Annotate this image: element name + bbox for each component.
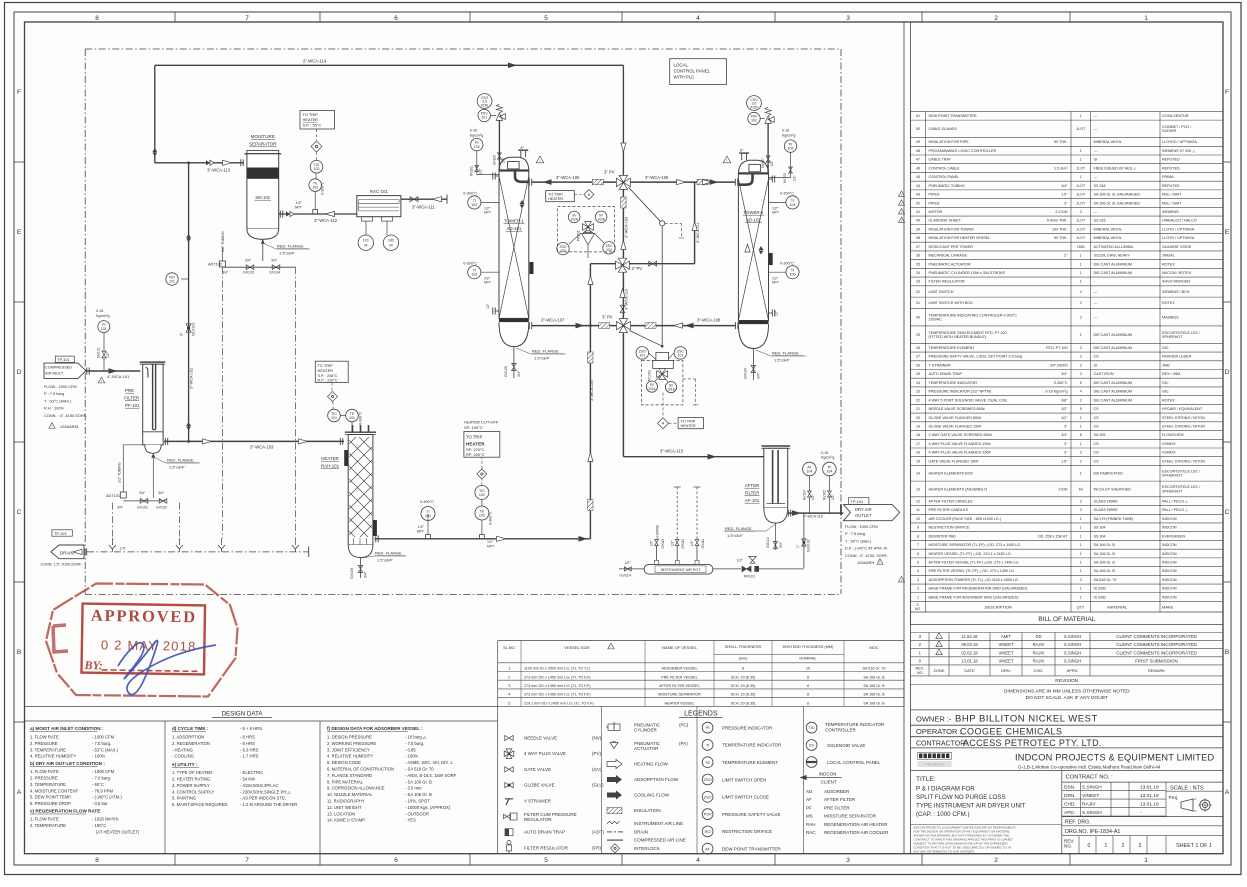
- svg-text:(PA): (PA): [679, 741, 688, 746]
- svg-text:GV104: GV104: [269, 271, 280, 275]
- svg-text:6. MATERIAL OF CONSTRUCTION: 6. MATERIAL OF CONSTRUCTION: [327, 767, 394, 772]
- svg-text:Proj.: Proj.: [1169, 795, 1179, 801]
- svg-text:6: 6: [917, 552, 919, 556]
- svg-text:02.02.18: 02.02.18: [961, 650, 978, 655]
- svg-text:AF-101: AF-101: [745, 498, 760, 503]
- svg-text:RAC-101: RAC-101: [370, 189, 389, 194]
- svg-text:HINDALCO / NALCO: HINDALCO / NALCO: [1162, 219, 1197, 223]
- svg-text:NV101: NV101: [97, 347, 101, 358]
- svg-text:4 WAY 5 PORT SOLENOID VALVE, D: 4 WAY 5 PORT SOLENOID VALVE, DUAL COIL: [929, 398, 1008, 402]
- svg-text:3: 3: [846, 15, 850, 22]
- svg-text:DIE CAST ALUMINIUM: DIE CAST ALUMINIUM: [1094, 262, 1132, 266]
- svg-text:MOC: MOC: [869, 645, 878, 650]
- svg-text:RTD, PT 100: RTD, PT 100: [1046, 346, 1067, 350]
- svg-text:INSULATION: INSULATION: [634, 808, 661, 813]
- svg-text:102: 102: [479, 513, 485, 517]
- svg-text:TOWER-1: TOWER-1: [504, 219, 525, 224]
- svg-text:1/2": 1/2": [650, 540, 654, 546]
- svg-text:3"-WCA-113: 3"-WCA-113: [207, 168, 231, 173]
- svg-text:COOLING FLOW: COOLING FLOW: [634, 793, 670, 798]
- svg-text:DRN.: DRN.: [1001, 668, 1011, 673]
- svg-text:GLASS FIBRE: GLASS FIBRE: [1094, 508, 1119, 512]
- svg-text:M: M: [389, 244, 392, 248]
- svg-text:INDCON: INDCON: [1162, 517, 1177, 521]
- svg-text:43: 43: [916, 193, 920, 197]
- svg-text:SHVO MORGEN: SHVO MORGEN: [1162, 280, 1190, 284]
- svg-text:NOMINAL: NOMINAL: [799, 657, 816, 661]
- legend col2 flows: [608, 724, 620, 731]
- svg-text:102: 102: [479, 493, 485, 497]
- svg-text:MATERIAL: MATERIAL: [1107, 604, 1127, 609]
- svg-text:I4: I4: [662, 422, 665, 426]
- PI101 gauge: [103, 358, 105, 371]
- svg-text:!: !: [901, 220, 902, 224]
- svg-text:AIR COOLER (FACE SIZE - 695 x: AIR COOLER (FACE SIZE - 695 x1000 LG.): [929, 517, 1002, 521]
- svg-text:50 THK.: 50 THK.: [1054, 140, 1067, 144]
- svg-text:SA 106 Gr. B: SA 106 Gr. B: [1094, 543, 1116, 547]
- vertical 3-WCA-110 PV2 to PV3: [622, 272, 624, 318]
- svg-text:2: 2: [994, 857, 998, 864]
- signal to trip heater from PC101: [683, 378, 696, 380]
- svg-text:2. HEATER RATING: 2. HEATER RATING: [172, 777, 210, 782]
- svg-text:NV102: NV102: [470, 166, 474, 176]
- svg-text:NV103: NV103: [783, 173, 787, 183]
- tower-1 TI102: [481, 201, 499, 203]
- svg-text:INSTRUMENT AIR LINE: INSTRUMENT AIR LINE: [634, 821, 683, 826]
- svg-text:25: 25: [916, 372, 920, 376]
- svg-text:HEATER: HEATER: [318, 368, 334, 373]
- tower-2 TI105: [769, 271, 787, 273]
- svg-text:SHELL THICKNESS: SHELL THICKNESS: [725, 644, 762, 649]
- svg-text:!: !: [52, 425, 53, 429]
- svg-text:4: 4: [1080, 390, 1082, 394]
- svg-text:TO TRIP: TO TRIP: [466, 435, 483, 440]
- svg-text:13.01.18: 13.01.18: [1140, 802, 1159, 808]
- svg-text:104: 104: [826, 469, 832, 473]
- svg-text:AUTO DRAIN TRAP: AUTO DRAIN TRAP: [929, 372, 963, 376]
- svg-text:- HEATING: - HEATING: [172, 747, 193, 752]
- title block owner row: [911, 709, 1224, 711]
- svg-text:CHD.: CHD.: [1064, 802, 1076, 808]
- svg-text:SOLENOID VALVE: SOLENOID VALVE: [827, 743, 865, 748]
- svg-text:!: !: [901, 193, 902, 197]
- svg-text:GLOBE VALVE FLANGED 800#: GLOBE VALVE FLANGED 800#: [929, 416, 983, 420]
- svg-text:51: 51: [916, 114, 920, 118]
- svg-text:GV114: GV114: [619, 574, 631, 578]
- svg-text:44: 44: [916, 184, 920, 188]
- svg-text:3"-WCA-106: 3"-WCA-106: [645, 175, 669, 180]
- svg-text:1: 1: [1080, 280, 1082, 284]
- svg-text:SA 106 Gr. B: SA 106 Gr. B: [863, 693, 885, 697]
- svg-text:ADSORPTION FLOW: ADSORPTION FLOW: [634, 777, 679, 782]
- tower-2 PI103: [784, 140, 796, 152]
- svg-text:NPT: NPT: [487, 545, 495, 549]
- svg-text:DIE CAST ALUMINIUM: DIE CAST ALUMINIUM: [1094, 333, 1132, 337]
- svg-text:8: 8: [807, 693, 809, 697]
- svg-text:2: 2: [1080, 372, 1082, 376]
- svg-text:RAJIV: RAJIV: [1033, 658, 1045, 663]
- svg-text:3"-WCA-104: 3"-WCA-104: [590, 380, 594, 401]
- svg-text:CLADDING SHEET: CLADDING SHEET: [929, 219, 962, 223]
- svg-text:P & I DIAGRAM FOR: P & I DIAGRAM FOR: [916, 786, 975, 793]
- tower-1 internals arrows: [520, 200, 525, 209]
- svg-text:102B: 102B: [597, 217, 604, 221]
- svg-text:(FITTED WITH HEATER BUNDLE): (FITTED WITH HEATER BUNDLE): [929, 335, 987, 339]
- svg-text:2: 2: [994, 15, 998, 22]
- svg-text:13.01.18: 13.01.18: [1140, 793, 1159, 799]
- tower-2 nozzle flanges: [769, 178, 773, 180]
- svg-text:8: 8: [742, 667, 744, 671]
- svg-text:3/4": 3/4": [245, 259, 252, 263]
- svg-text:2. WORKING PRESSURE: 2. WORKING PRESSURE: [327, 741, 377, 746]
- after filter AF-101 vessel: [761, 445, 790, 447]
- svg-text:12. UNIT WEIGHT: 12. UNIT WEIGHT: [327, 805, 362, 810]
- svg-text:2: 2: [1080, 508, 1082, 512]
- svg-text:6: 6: [394, 857, 398, 864]
- instrument air pot: [644, 564, 713, 574]
- svg-text:c) REGENERATION FLOW RATE: c) REGENERATION FLOW RATE: [30, 809, 100, 814]
- svg-text:1LOT: 1LOT: [1076, 219, 1086, 223]
- svg-text:RP: 200°C: RP: 200°C: [466, 452, 485, 457]
- svg-text:3/4": 3/4": [757, 372, 761, 379]
- svg-text:46: 46: [916, 166, 920, 170]
- svg-text:1LOT: 1LOT: [1076, 201, 1086, 205]
- TI101 on heater outlet: [426, 535, 431, 540]
- svg-text:HYDAIR / EQUIVALENT: HYDAIR / EQUIVALENT: [1162, 407, 1203, 411]
- design data table: [25, 706, 498, 708]
- svg-text:TEMPERATURE ELEMENT: TEMPERATURE ELEMENT: [929, 346, 976, 350]
- svg-text:E: E: [1225, 229, 1230, 236]
- svg-text:- OUTDOOR: - OUTDOOR: [405, 811, 429, 816]
- svg-text:SA 106 Gr. B: SA 106 Gr. B: [863, 684, 885, 688]
- interlock diamond tic103: [316, 129, 318, 140]
- svg-text:101B: 101B: [667, 388, 674, 392]
- svg-text:0-300°C: 0-300°C: [359, 411, 363, 425]
- tower-2 TI104: [769, 201, 787, 203]
- svg-text:1/2": 1/2": [487, 540, 494, 544]
- svg-text:1/2": 1/2": [690, 540, 694, 546]
- svg-text:OWNER :-: OWNER :-: [916, 715, 952, 724]
- line 2-WCA-114: [155, 64, 624, 66]
- svg-text:13. LOCATION: 13. LOCATION: [327, 811, 355, 816]
- svg-text:3. TEMPERATURE: 3. TEMPERATURE: [30, 747, 66, 752]
- svg-text:PA101: PA101: [577, 230, 581, 241]
- svg-text:- SA 106 Gr. B: - SA 106 Gr. B: [405, 792, 432, 797]
- instrument air spare lines: [656, 546, 658, 565]
- svg-text:DSN.: DSN.: [1064, 785, 1075, 791]
- svg-text:(GV): (GV): [592, 767, 602, 772]
- svg-text:12: 12: [916, 499, 920, 503]
- svg-text:3"-WCA-111: 3"-WCA-111: [696, 222, 700, 243]
- svg-text:ADSORBER: ADSORBER: [824, 789, 850, 794]
- legend col4: [806, 722, 817, 733]
- svg-text:PNEUMATIC ACTUATOR: PNEUMATIC ACTUATOR: [929, 262, 972, 266]
- svg-text:2: 2: [917, 587, 919, 591]
- svg-text:3/4": 3/4": [158, 491, 165, 495]
- svg-text:NPT: NPT: [772, 281, 780, 285]
- svg-text:1: 1: [1105, 843, 1108, 849]
- svg-text:PRESSURE SAFETY VALVE: PRESSURE SAFETY VALVE: [722, 812, 781, 817]
- svg-text:3"-WCA-109: 3"-WCA-109: [625, 217, 629, 238]
- 4-way plug valve PV2: [616, 258, 630, 272]
- svg-text:ACCESS PETROTEC PTY. LTD.: ACCESS PETROTEC PTY. LTD.: [963, 738, 1102, 748]
- svg-text:SA 516 Gr. 70: SA 516 Gr. 70: [1094, 578, 1117, 582]
- svg-text:45: 45: [916, 175, 920, 179]
- svg-text:22: 22: [916, 398, 920, 402]
- svg-text:- 8 HRS: - 8 HRS: [240, 741, 255, 746]
- svg-text:103: 103: [471, 273, 477, 277]
- svg-text:1/2": 1/2": [770, 160, 774, 166]
- svg-text:INSTRUMENT AIR POT: INSTRUMENT AIR POT: [661, 568, 701, 572]
- svg-text:P : 7.5 barg: P : 7.5 barg: [845, 531, 865, 536]
- svg-text:10: 10: [806, 667, 810, 671]
- svg-text:- 3.0 mm: - 3.0 mm: [405, 786, 422, 791]
- svg-text:273 mm OD x 1450 mm LG. (T.L T: 273 mm OD x 1450 mm LG. (T.L TO F,F): [524, 693, 591, 697]
- svg-text:HEATER: HEATER: [466, 442, 485, 447]
- tower-1 nozzle flanges: [496, 175, 500, 177]
- svg-text:SA 106 Gr. B: SA 106 Gr. B: [1094, 569, 1116, 573]
- tower-1 GV106 on psv line: [497, 153, 501, 159]
- svg-text:#150: #150: [481, 103, 489, 107]
- svg-text:8. PIPE MATERIAL: 8. PIPE MATERIAL: [327, 779, 364, 784]
- svg-text:RAH-101: RAH-101: [321, 464, 340, 469]
- svg-text:7: 7: [245, 15, 249, 22]
- svg-text:(mm): (mm): [739, 657, 749, 661]
- svg-text:CS: CS: [1094, 459, 1100, 463]
- svg-text:NV105: NV105: [823, 490, 827, 500]
- zone grid dividers top: [174, 12, 176, 22]
- svg-text:PRESSURE INDICATOR: PRESSURE INDICATOR: [722, 725, 773, 730]
- svg-text:1. TYPE OF HEATER: 1. TYPE OF HEATER: [172, 770, 212, 775]
- pneumatic cylinder PC101 group: [642, 361, 683, 405]
- svg-text:GV110: GV110: [766, 537, 770, 548]
- svg-text:NV104: NV104: [803, 490, 807, 500]
- svg-text:1: 1: [1144, 15, 1148, 22]
- disclaimer box: [911, 824, 1062, 826]
- pneumatic actuator PA101 group: [558, 207, 615, 252]
- svg-text:S.SINGH: S.SINGH: [1082, 785, 1102, 791]
- svg-text:101: 101: [425, 514, 431, 518]
- svg-text:- 1000 CFM: - 1000 CFM: [92, 735, 115, 740]
- svg-text:ACTIVATED ALLUMINA: ACTIVATED ALLUMINA: [1094, 245, 1134, 249]
- svg-text:GLOBE VALVE FLANGED 150#: GLOBE VALVE FLANGED 150#: [929, 424, 983, 428]
- svg-text:OV107: OV107: [761, 158, 765, 168]
- local control panel box: [670, 59, 727, 85]
- svg-text:0-300°C: 0-300°C: [780, 192, 794, 196]
- svg-text:b) DRY AIR OUT-LET CONDITION :: b) DRY AIR OUT-LET CONDITION :: [30, 761, 105, 766]
- svg-text:GLASS FIBRE: GLASS FIBRE: [1094, 499, 1119, 503]
- svg-text:1/2" TUBING: 1/2" TUBING: [221, 231, 225, 252]
- tower-1 manway: [499, 169, 529, 171]
- projection symbol: [1181, 799, 1193, 811]
- svg-text:7: 7: [245, 857, 249, 864]
- svg-text:OD. 258 x 158 HT: OD. 258 x 158 HT: [1038, 534, 1068, 538]
- svg-text:SCH. 20 (6.35): SCH. 20 (6.35): [731, 693, 756, 697]
- inlet line 4-WCA-101: [86, 370, 141, 372]
- svg-text:DIE CAST ALUMINIUM: DIE CAST ALUMINIUM: [1094, 271, 1132, 275]
- svg-text:MS: MS: [806, 814, 813, 819]
- svg-text:x4 SPARE: x4 SPARE: [656, 525, 660, 540]
- svg-text:PALL / PECO △: PALL / PECO △: [1162, 499, 1189, 503]
- svg-text:1: 1: [1080, 262, 1082, 266]
- svg-text:1/2": 1/2": [811, 494, 815, 500]
- svg-text:!: !: [939, 652, 940, 656]
- svg-text:4 WAY PLUG VALVE: 4 WAY PLUG VALVE: [524, 751, 566, 756]
- svg-text:14: 14: [916, 472, 920, 476]
- svg-text:35: 35: [916, 262, 920, 266]
- svg-text:CONN. 1.5", #150.SORF: CONN. 1.5", #150.SORF: [41, 563, 83, 567]
- svg-text:26: 26: [916, 363, 920, 367]
- svg-text:BASE FRAME FOR ADSORBER SKID (: BASE FRAME FOR ADSORBER SKID (GALVANIZED…: [929, 595, 1019, 599]
- svg-text:RAH: RAH: [806, 822, 816, 827]
- svg-text:SCH. 20 (6.35): SCH. 20 (6.35): [731, 675, 756, 679]
- svg-text:3/8": 3/8": [1061, 398, 1068, 402]
- svg-text:DIE CAST ALUMINIUM: DIE CAST ALUMINIUM: [1094, 381, 1132, 385]
- svg-text:GV112: GV112: [681, 539, 685, 549]
- svg-text:F: F: [1225, 89, 1229, 96]
- svg-text:D: D: [17, 369, 22, 376]
- svg-text:DRY AIR: DRY AIR: [855, 507, 872, 512]
- red flange callout af-101: [766, 524, 775, 531]
- drain funnels: [111, 538, 113, 545]
- svg-text:1.5": 1.5": [119, 546, 127, 551]
- svg-text:SPHERHOT: SPHERHOT: [1162, 474, 1183, 478]
- zone grid dividers sides: [14, 161, 25, 163]
- svg-text:3/4": 3/4": [779, 541, 783, 548]
- ref drg row: [1062, 816, 1223, 818]
- svg-text:RED. FLANGE: RED. FLANGE: [375, 551, 402, 556]
- svg-text:2: 2: [1080, 499, 1082, 503]
- svg-text:SIEMENS S7 200 △: SIEMENS S7 200 △: [1162, 149, 1196, 153]
- svg-text:f) DESIGN DATA FOR ADSORBER VE: f) DESIGN DATA FOR ADSORBER VESSEL :: [327, 726, 423, 731]
- battery limit dash-dot boundary: [85, 48, 841, 50]
- svg-text:REX / JNM: REX / JNM: [1162, 372, 1180, 376]
- svg-text:IS 2062: IS 2062: [1094, 587, 1107, 591]
- instrument TIC103: [316, 152, 318, 160]
- svg-text:101: 101: [639, 353, 645, 357]
- svg-text:AF: AF: [806, 797, 812, 802]
- tower-2 manway: [738, 172, 768, 174]
- svg-text:1: 1: [1080, 552, 1082, 556]
- svg-text:TYPE INSTRUMENT AIR DRYER UNIT: TYPE INSTRUMENT AIR DRYER UNIT: [916, 803, 1026, 810]
- svg-text:1: 1: [1080, 416, 1082, 420]
- svg-text:1: 1: [1080, 424, 1082, 428]
- svg-text:HEATER VESSEL (TL-FF) △O: HEATER VESSEL (TL-FF) △OD. 219.1 x 2450 …: [929, 552, 1012, 556]
- svg-text:7: 7: [917, 543, 919, 547]
- svg-text:MSL / ISMT: MSL / ISMT: [1162, 201, 1182, 205]
- svg-text:LIMIT SWITCH CLOSE: LIMIT SWITCH CLOSE: [722, 795, 769, 800]
- svg-text:Y STRAINER: Y STRAINER: [524, 798, 552, 803]
- svg-text:2"-WCA-114: 2"-WCA-114: [303, 59, 327, 64]
- svg-text:SA 106 Gr. B: SA 106 Gr. B: [863, 675, 885, 679]
- svg-text:- ELECTRIC: - ELECTRIC: [240, 770, 263, 775]
- svg-text:104: 104: [806, 469, 812, 473]
- svg-text:103: 103: [788, 147, 794, 151]
- svg-text:CS: CS: [1094, 416, 1100, 420]
- svg-text:1: 1: [1080, 149, 1082, 153]
- svg-text:PF-101: PF-101: [125, 403, 140, 408]
- svg-text:3"-WCA-107: 3"-WCA-107: [541, 318, 565, 323]
- svg-text:1/2": 1/2": [831, 494, 835, 500]
- red flange callout tower-1: [516, 348, 531, 354]
- svg-text:DRAIN: DRAIN: [60, 551, 74, 556]
- svg-text:DRAIN: DRAIN: [634, 829, 648, 834]
- svg-text:(NV): (NV): [592, 736, 602, 741]
- svg-text:BY:: BY:: [83, 658, 102, 672]
- svg-text:3"-WCA-108: 3"-WCA-108: [697, 318, 721, 323]
- svg-text:1/2": 1/2": [625, 561, 632, 565]
- svg-text:23: 23: [916, 390, 920, 394]
- svg-text:3"-WCA-103: 3"-WCA-103: [250, 444, 274, 449]
- svg-text:0-16: 0-16: [821, 451, 828, 455]
- svg-text:!: !: [901, 211, 902, 215]
- svg-text:CS: CS: [1094, 355, 1100, 359]
- svg-text:!: !: [727, 159, 728, 163]
- svg-text:VESSEL SIZE: VESSEL SIZE: [564, 645, 590, 650]
- svg-text:LLOYD / UPTWIGA: LLOYD / UPTWIGA: [1162, 227, 1195, 231]
- svg-text:SPLIT FLOW NO PURGE LOSS: SPLIT FLOW NO PURGE LOSS: [916, 794, 1006, 801]
- svg-text:BASE FRAME FOR REGENERATION SK: BASE FRAME FOR REGENERATION SKID (GALVAN…: [929, 587, 1028, 591]
- svg-text:MOISTURE SEPARATOR: MOISTURE SEPARATOR: [824, 814, 877, 819]
- svg-text:4. RELATIVE HUMIDITY: 4. RELATIVE HUMIDITY: [30, 754, 76, 759]
- svg-text:1.5"x3/4": 1.5"x3/4": [377, 558, 394, 563]
- svg-text:ZONE: ZONE: [933, 668, 944, 673]
- svg-text:INSULATION FOR HEATER VESSEL: INSULATION FOR HEATER VESSEL: [929, 236, 991, 240]
- svg-text:GV103: GV103: [243, 271, 254, 275]
- svg-text:10: 10: [916, 517, 920, 521]
- svg-text:- 190°C: - 190°C: [92, 823, 106, 828]
- svg-text:21: 21: [916, 407, 920, 411]
- svg-text:RAC: RAC: [806, 830, 816, 835]
- svg-text:JNM: JNM: [1162, 363, 1170, 367]
- svg-text:INDCON: INDCON: [1162, 569, 1177, 573]
- svg-text:NPT: NPT: [772, 211, 780, 215]
- svg-text:5: 5: [508, 701, 510, 705]
- svg-text:a) MOIST AIR INLET CONDITION :: a) MOIST AIR INLET CONDITION :: [30, 726, 104, 731]
- svg-text:1: 1: [1080, 543, 1082, 547]
- svg-text:DESICCANT PER TOWER: DESICCANT PER TOWER: [929, 245, 974, 249]
- revision table: [911, 632, 1224, 634]
- svg-text:PRIMA: PRIMA: [1162, 175, 1174, 179]
- svg-text:3" PV: 3" PV: [602, 315, 613, 320]
- svg-text:FIRST SUBMISSION: FIRST SUBMISSION: [1135, 658, 1177, 663]
- svg-text:AFTER: AFTER: [745, 483, 759, 488]
- svg-text:CLIENT COMMENTS INCORPORATED: CLIENT COMMENTS INCORPORATED: [1116, 650, 1197, 655]
- svg-text:MOISTURE: MOISTURE: [251, 134, 275, 139]
- svg-text:101: 101: [678, 353, 684, 357]
- svg-text:GLOBE VALVE: GLOBE VALVE: [524, 783, 555, 788]
- svg-text:COMPRESSED AIR LINE: COMPRESSED AIR LINE: [634, 838, 686, 843]
- svg-text:INTERLOCK: INTERLOCK: [634, 846, 660, 851]
- svg-text:2: 2: [1080, 210, 1082, 214]
- svg-text:HEATER ELEMENTS (ASSEMBLY): HEATER ELEMENTS (ASSEMBLY): [929, 487, 988, 491]
- svg-text:AFTER FILTER VESSEL (TL-FF) △: AFTER FILTER VESSEL (TL-FF) △OD. 273 x 1…: [929, 561, 1020, 565]
- svg-text:16: 16: [916, 451, 920, 455]
- svg-text:CONTROL PANEL: CONTROL PANEL: [674, 69, 711, 74]
- svg-text:2 WAY GATE VALVE SCREWED 800#: 2 WAY GATE VALVE SCREWED 800#: [929, 433, 993, 437]
- svg-text:FLOWCHEM: FLOWCHEM: [1162, 433, 1184, 437]
- svg-text:INDCON: INDCON: [1162, 561, 1177, 565]
- svg-text:DIMENSIONS ARE IN MM UNLESS OT: DIMENSIONS ARE IN MM UNLESS OTHERWISE NO…: [1004, 689, 1130, 695]
- svg-text:B: B: [17, 649, 21, 656]
- svg-text:FILTER: FILTER: [124, 396, 139, 401]
- svg-text:REF. DRG.: REF. DRG.: [1065, 820, 1091, 826]
- svg-text:230VAC: 230VAC: [929, 318, 943, 322]
- svg-text:XOMOX: XOMOX: [1162, 451, 1176, 455]
- svg-text:1. FLOW RATE: 1. FLOW RATE: [30, 769, 59, 774]
- svg-text:NEEDLE VALVE: NEEDLE VALVE: [524, 736, 557, 741]
- svg-text:INDCON: INDCON: [1162, 543, 1177, 547]
